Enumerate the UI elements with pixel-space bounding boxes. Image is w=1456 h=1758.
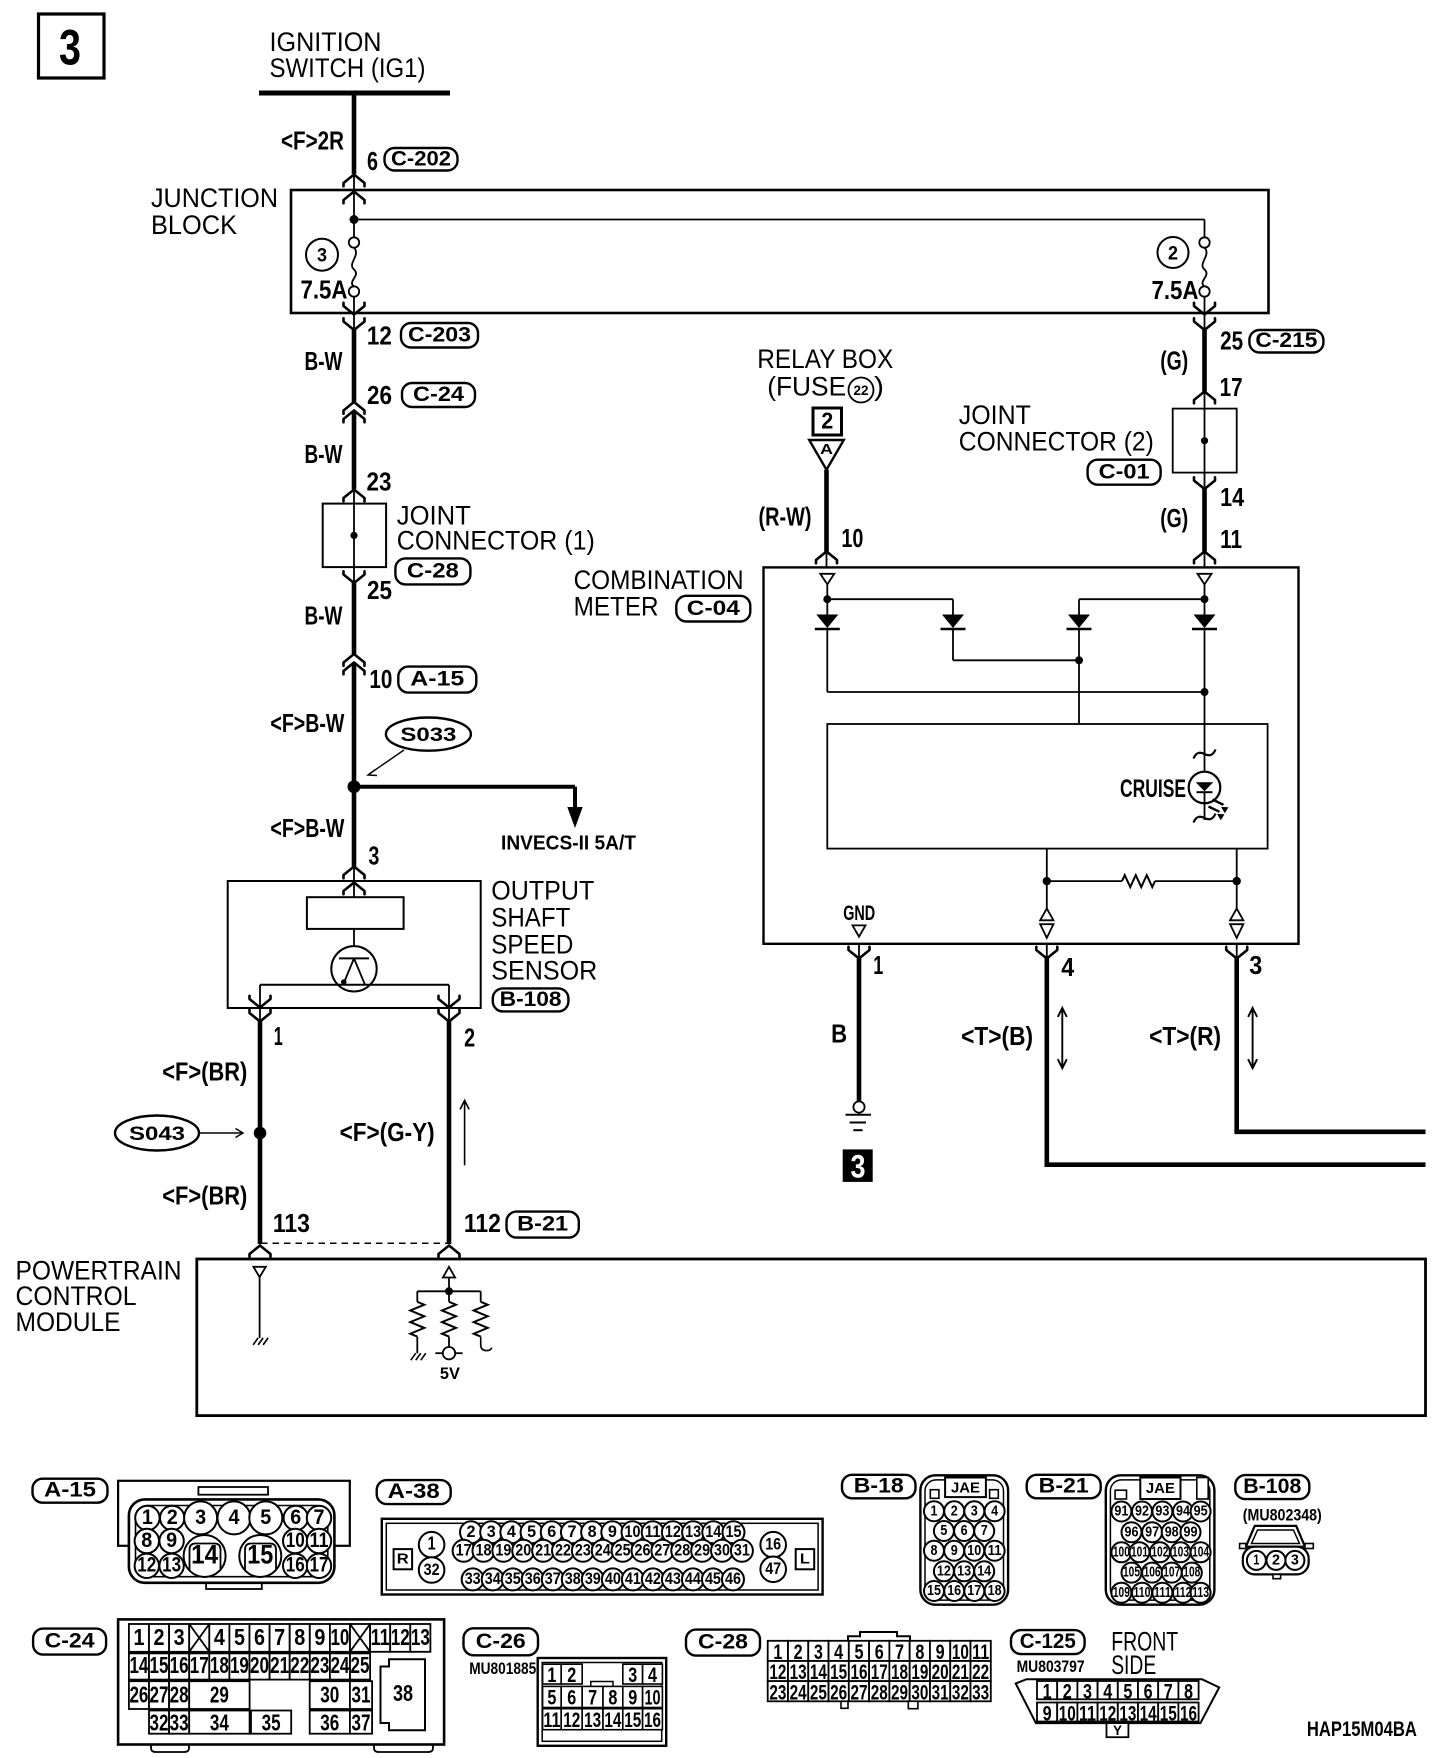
- connector A-38 pin 16: [760, 1532, 786, 1558]
- connector B-108 pins: [1247, 1551, 1266, 1570]
- PCM pullup node: [445, 1287, 453, 1295]
- svg-text:19: 19: [495, 1541, 511, 1560]
- svg-text:MODULE: MODULE: [16, 1307, 121, 1337]
- connector A-38 pins row 3: [462, 1568, 484, 1590]
- connector B-108 housing: [1246, 1526, 1305, 1547]
- connector A-38 pins row 2: [453, 1540, 475, 1562]
- svg-text:A-15: A-15: [44, 1479, 96, 1502]
- svg-text:13: 13: [957, 1563, 971, 1579]
- svg-text:31: 31: [352, 1682, 371, 1708]
- node diode2-diode3 join: [1075, 656, 1083, 664]
- svg-text:3: 3: [487, 1522, 496, 1541]
- svg-text:R: R: [397, 1551, 409, 1568]
- svg-text:38: 38: [565, 1569, 581, 1588]
- connector A-38 housing: [382, 1519, 823, 1595]
- svg-text:4: 4: [1103, 1680, 1112, 1703]
- svg-text:<F>(G-Y): <F>(G-Y): [340, 1119, 435, 1147]
- svg-text:12: 12: [563, 1709, 580, 1732]
- svg-text:28: 28: [871, 1681, 888, 1704]
- svg-text:37: 37: [352, 1709, 371, 1735]
- meter output pin 3 triangles: [1236, 881, 1238, 908]
- svg-text:4: 4: [648, 1664, 657, 1687]
- svg-text:23: 23: [769, 1681, 786, 1704]
- svg-text:7.5A: 7.5A: [1152, 277, 1199, 305]
- svg-text:12: 12: [391, 1624, 410, 1650]
- svg-text:OUTPUT: OUTPUT: [491, 876, 594, 906]
- node right feed: [1201, 595, 1209, 603]
- svg-text:JUNCTION: JUNCTION: [151, 183, 278, 213]
- svg-text:19: 19: [230, 1652, 249, 1678]
- ground connection circle: [853, 1101, 864, 1112]
- svg-text:CONNECTOR (1): CONNECTOR (1): [397, 525, 595, 555]
- svg-text:4: 4: [229, 1506, 240, 1529]
- connector C-28 label: [686, 1630, 760, 1656]
- svg-text:95: 95: [1194, 1504, 1208, 1520]
- svg-text:96: 96: [1125, 1524, 1139, 1540]
- svg-text:4: 4: [991, 1503, 998, 1519]
- connector B-21 JAE box: [1140, 1478, 1180, 1500]
- wire diode 3 output: [1078, 630, 1080, 724]
- svg-text:6: 6: [961, 1523, 968, 1539]
- junction node to fuses: [350, 215, 359, 224]
- svg-text:8: 8: [141, 1529, 152, 1552]
- connector C-26 label: [464, 1628, 539, 1655]
- svg-text:1: 1: [1253, 1553, 1259, 1569]
- connector A-38 R keying box: [394, 1549, 413, 1569]
- svg-text:SWITCH (IG1): SWITCH (IG1): [270, 53, 426, 83]
- PCM 5V supply symbol: [443, 1347, 455, 1359]
- magnetic pickup symbol: [331, 946, 376, 991]
- svg-text:CRUISE: CRUISE: [1120, 775, 1186, 803]
- svg-text:3: 3: [195, 1506, 206, 1529]
- svg-text:46: 46: [725, 1569, 741, 1588]
- svg-text:25: 25: [810, 1681, 827, 1704]
- connector C-28 keying tab top: [848, 1632, 910, 1641]
- cruise indicator lamp wire upper: [1204, 724, 1206, 772]
- svg-text:S033: S033: [400, 724, 456, 746]
- svg-text:<T>(R): <T>(R): [1149, 1023, 1221, 1051]
- svg-text:30: 30: [320, 1682, 339, 1708]
- connector C-125 pins row 1: [1037, 1681, 1057, 1699]
- svg-text:16: 16: [1180, 1702, 1197, 1725]
- svg-text:1: 1: [931, 1503, 938, 1519]
- svg-text:C-125: C-125: [1020, 1630, 1076, 1653]
- connector B-18 pins: [924, 1501, 944, 1521]
- svg-text:7: 7: [1164, 1680, 1173, 1703]
- sensor pin 2 exit chevrons: [448, 985, 450, 1022]
- connector B-108 label: [493, 988, 569, 1011]
- svg-text:25: 25: [367, 577, 392, 605]
- meter entry chevron pin 10: [816, 552, 837, 564]
- svg-text:108: 108: [1183, 1565, 1200, 1581]
- wire <F>2R ignition switch to junction block: [352, 93, 357, 174]
- svg-text:27: 27: [850, 1681, 867, 1704]
- speed sensor entry chevrons: [344, 867, 365, 879]
- svg-text:3: 3: [368, 843, 379, 871]
- joint connector 1 exit chevron: [353, 567, 355, 583]
- connector C-26 row 1 cells: [543, 1664, 562, 1684]
- svg-text:33: 33: [170, 1709, 189, 1735]
- wire internal box to resistor node right: [1236, 849, 1238, 882]
- svg-text:GND: GND: [843, 902, 875, 925]
- svg-text:3: 3: [851, 1148, 866, 1184]
- wire B-W joint connector to A-15: [352, 582, 357, 654]
- arrow from S033 to splice: [369, 750, 405, 775]
- cruise indicator LED: [1189, 772, 1221, 804]
- internal feed wire to fuse 2: [354, 219, 1205, 221]
- svg-text:<F>B-W: <F>B-W: [270, 710, 345, 738]
- junction block exit chevron right: [1204, 313, 1206, 330]
- connector A-15 label: [33, 1479, 108, 1503]
- svg-text:11: 11: [543, 1709, 560, 1732]
- svg-text:11: 11: [310, 1529, 329, 1552]
- fuse 2 number circle: [1158, 237, 1189, 268]
- svg-text:15: 15: [150, 1652, 169, 1678]
- connector C-26 row 3 cells: [543, 1709, 562, 1730]
- cruise indicator lamp break upper: [1194, 750, 1216, 759]
- svg-text:36: 36: [320, 1709, 339, 1735]
- svg-text:2: 2: [951, 1503, 958, 1519]
- signal direction double arrow right: [1252, 1010, 1254, 1066]
- svg-text:B-W: B-W: [305, 348, 344, 376]
- svg-text:7: 7: [274, 1624, 285, 1650]
- svg-text:14: 14: [705, 1522, 721, 1541]
- svg-text:B-W: B-W: [305, 441, 344, 469]
- connector A-15 bottom tab: [206, 1583, 262, 1589]
- svg-text:10: 10: [625, 1522, 641, 1541]
- svg-text:(G): (G): [1160, 505, 1188, 533]
- PCM pin 113 internal triangle: [253, 1267, 265, 1277]
- svg-text:16: 16: [170, 1652, 189, 1678]
- svg-text:8: 8: [588, 1522, 597, 1541]
- svg-text:5V: 5V: [440, 1364, 461, 1383]
- svg-text:3: 3: [174, 1624, 185, 1650]
- svg-text:<F>B-W: <F>B-W: [270, 815, 345, 843]
- svg-text:2: 2: [1168, 243, 1178, 264]
- svg-text:2: 2: [821, 407, 833, 433]
- junction block exit chevron left: [353, 313, 355, 330]
- wire block to pickup: [353, 929, 355, 946]
- svg-text:99: 99: [1184, 1524, 1198, 1540]
- svg-text:8: 8: [294, 1624, 305, 1650]
- meter output pin 4 triangles: [1046, 881, 1048, 908]
- connector B-108 label: [1235, 1475, 1309, 1499]
- combination meter box: [764, 567, 1299, 943]
- wire fuse 3 to junction block bottom: [353, 297, 355, 313]
- connector A-15 pin 14 cavity outline: [190, 1544, 221, 1571]
- svg-text:101: 101: [1131, 1544, 1148, 1560]
- svg-text:24: 24: [790, 1681, 807, 1704]
- svg-text:45: 45: [705, 1569, 721, 1588]
- svg-text:6: 6: [567, 1686, 576, 1709]
- svg-text:2: 2: [467, 1522, 476, 1541]
- svg-text:16: 16: [947, 1583, 961, 1599]
- sensor pin 1 exit chevrons: [259, 985, 261, 1022]
- arrowhead to INVECS-II: [567, 807, 582, 828]
- node diode1-diode4 join: [1201, 688, 1209, 696]
- connector B-18 JAE box: [945, 1478, 986, 1498]
- wire fuse 2 to junction block bottom: [1204, 297, 1206, 313]
- connector B-21 body: [1106, 1475, 1215, 1604]
- connector C-24 row 1 cells: [129, 1624, 149, 1652]
- svg-text:1: 1: [1043, 1680, 1052, 1703]
- svg-text:102: 102: [1151, 1544, 1168, 1560]
- svg-text:107: 107: [1163, 1565, 1180, 1581]
- svg-text:113: 113: [273, 1210, 310, 1238]
- svg-text:1: 1: [873, 952, 883, 980]
- svg-text:1: 1: [133, 1624, 144, 1650]
- meter pin 1 exit chevron: [858, 944, 860, 959]
- svg-text:JOINT: JOINT: [959, 400, 1031, 430]
- svg-text:INVECS-II 5A/T: INVECS-II 5A/T: [501, 833, 636, 855]
- svg-text:22: 22: [290, 1652, 309, 1678]
- PCM internal ground wire: [259, 1277, 261, 1338]
- svg-text:<T>(B): <T>(B): [961, 1023, 1033, 1051]
- svg-text:22: 22: [854, 383, 869, 398]
- svg-text:B-21: B-21: [517, 1212, 568, 1236]
- svg-text:4: 4: [507, 1522, 517, 1541]
- svg-text:39: 39: [585, 1569, 601, 1588]
- svg-text:9: 9: [608, 1522, 617, 1541]
- svg-text:C-215: C-215: [1255, 329, 1317, 352]
- wire diode 2 output: [952, 630, 954, 660]
- wire internal box to resistor node left: [1046, 849, 1048, 882]
- svg-text:2: 2: [464, 1024, 475, 1052]
- wire to diode 3: [1079, 598, 1205, 600]
- svg-text:17: 17: [1220, 374, 1243, 402]
- svg-text:11: 11: [988, 1543, 1002, 1559]
- svg-text:23: 23: [367, 469, 392, 497]
- connector B-21 label: [1027, 1475, 1101, 1499]
- ground symbol: [858, 1113, 860, 1115]
- svg-text:24: 24: [595, 1541, 611, 1560]
- svg-text:6: 6: [1144, 1680, 1153, 1703]
- svg-text:40: 40: [605, 1569, 621, 1588]
- svg-text:41: 41: [625, 1569, 641, 1588]
- meter pin 10 internal triangle: [820, 574, 834, 585]
- joint connector 2 entry chevron: [1194, 392, 1215, 404]
- svg-text:6: 6: [290, 1506, 301, 1529]
- svg-text:15: 15: [624, 1709, 641, 1732]
- wire B meter ground: [857, 958, 862, 1102]
- page number box 3: [39, 14, 105, 78]
- svg-text:10: 10: [369, 666, 392, 694]
- connector A-15 pins: [135, 1506, 159, 1530]
- svg-text:44: 44: [685, 1569, 701, 1588]
- svg-text:9: 9: [951, 1543, 958, 1559]
- svg-text:8: 8: [608, 1686, 617, 1709]
- svg-text:14: 14: [129, 1652, 148, 1678]
- svg-text:2: 2: [167, 1506, 178, 1529]
- svg-text:10: 10: [330, 1624, 349, 1650]
- splice node S033: [348, 780, 361, 793]
- svg-text:18: 18: [988, 1583, 1002, 1599]
- svg-text:18: 18: [475, 1541, 491, 1560]
- svg-text:13: 13: [411, 1624, 430, 1650]
- connector B-18 label: [842, 1475, 916, 1499]
- wire (G) junction block to joint connector 2: [1202, 329, 1207, 392]
- connector C-125 Y tab: [1107, 1723, 1129, 1737]
- svg-text:33: 33: [972, 1681, 989, 1704]
- svg-text:29: 29: [891, 1681, 908, 1704]
- svg-text:25: 25: [615, 1541, 631, 1560]
- connector A-15 pin 15 cavity outline: [245, 1544, 276, 1571]
- connector B-18 body: [920, 1475, 1008, 1604]
- wire <F>(BR) sensor pin 1 to PCM pin 113: [258, 1021, 263, 1245]
- svg-text:3: 3: [628, 1664, 637, 1687]
- joint connector (1) box: [323, 504, 386, 567]
- connector C-24 row 4 cells: [149, 1711, 169, 1734]
- svg-text:9: 9: [314, 1624, 325, 1650]
- svg-text:31: 31: [932, 1681, 949, 1704]
- joint connector 2 exit chevron: [1204, 473, 1206, 489]
- svg-text:11: 11: [645, 1522, 661, 1541]
- svg-text:35: 35: [262, 1709, 281, 1735]
- svg-text:7: 7: [314, 1506, 325, 1529]
- svg-text:29: 29: [210, 1682, 229, 1708]
- svg-text:12: 12: [367, 323, 392, 351]
- svg-text:C-202: C-202: [391, 146, 451, 170]
- PCM entry chevron pin 112: [439, 1246, 460, 1258]
- connector C-125 pins row 2: [1037, 1703, 1057, 1722]
- connector C-24 housing: [118, 1619, 444, 1744]
- fuse 3 number circle: [306, 239, 338, 271]
- svg-text:112: 112: [464, 1210, 501, 1238]
- svg-text:JAE: JAE: [1146, 1480, 1175, 1497]
- svg-text:13: 13: [685, 1522, 701, 1541]
- svg-text:28: 28: [170, 1682, 189, 1708]
- connector C-202 label: [385, 148, 458, 171]
- svg-text:Y: Y: [1113, 1722, 1123, 1738]
- svg-text:34: 34: [210, 1709, 229, 1735]
- svg-text:A-15: A-15: [410, 667, 464, 691]
- ground reference black box 3: [843, 1149, 873, 1182]
- svg-text:5: 5: [234, 1624, 245, 1650]
- connector A-38 pin 32: [419, 1557, 445, 1583]
- svg-text:9: 9: [1043, 1702, 1052, 1725]
- connector A-38 pin 1: [419, 1532, 445, 1558]
- wire <F>B-W splice to output shaft speed sensor: [352, 787, 357, 867]
- svg-text:RELAY BOX: RELAY BOX: [757, 344, 893, 374]
- svg-text:17: 17: [310, 1554, 329, 1577]
- svg-text:16: 16: [765, 1535, 781, 1554]
- svg-text:2: 2: [1063, 1680, 1072, 1703]
- svg-text:25: 25: [1220, 328, 1243, 356]
- meter pin 3 exit chevron: [1236, 944, 1238, 959]
- connector C-24 cavity 38: [381, 1659, 426, 1730]
- svg-text:26: 26: [129, 1682, 148, 1708]
- svg-text:111: 111: [1154, 1585, 1171, 1601]
- svg-text:4: 4: [214, 1624, 225, 1650]
- splice S033 callout: [386, 718, 471, 751]
- connector boundary dashed line: [261, 1242, 449, 1244]
- svg-text:1: 1: [547, 1664, 556, 1687]
- svg-text:17: 17: [967, 1583, 981, 1599]
- svg-text:109: 109: [1113, 1585, 1130, 1601]
- intermediate connector chevrons at A-15: [344, 654, 365, 666]
- connector C-28 grid: [768, 1641, 788, 1661]
- svg-text:97: 97: [1145, 1524, 1159, 1540]
- svg-text:B-21: B-21: [1039, 1475, 1089, 1498]
- meter internal circuit box: [827, 724, 1267, 849]
- svg-text:31: 31: [734, 1541, 750, 1560]
- svg-text:42: 42: [645, 1569, 661, 1588]
- diode 1: [816, 615, 838, 629]
- svg-text:112: 112: [1175, 1585, 1192, 1601]
- diode 2: [942, 615, 964, 629]
- svg-text:SHAFT: SHAFT: [491, 903, 570, 933]
- splice node S043: [254, 1127, 267, 1140]
- connector C-01 label: [1088, 460, 1161, 485]
- svg-text:110: 110: [1134, 1585, 1151, 1601]
- svg-text:9: 9: [166, 1529, 177, 1552]
- PCM resistor middle: [448, 1291, 450, 1302]
- wire diode 1 output: [826, 630, 828, 692]
- svg-text:14: 14: [604, 1709, 621, 1732]
- powertrain control module box: [197, 1259, 1426, 1416]
- svg-text:A-38: A-38: [388, 1480, 440, 1503]
- svg-text:6: 6: [367, 148, 378, 176]
- svg-text:B-W: B-W: [305, 603, 344, 631]
- svg-text:5: 5: [527, 1522, 536, 1541]
- svg-text:32: 32: [150, 1709, 169, 1735]
- svg-text:38: 38: [393, 1680, 413, 1706]
- svg-text:12: 12: [665, 1522, 681, 1541]
- svg-text:13: 13: [162, 1554, 181, 1577]
- svg-text:17: 17: [190, 1652, 209, 1678]
- svg-text:27: 27: [654, 1541, 670, 1560]
- svg-text:16: 16: [286, 1554, 305, 1577]
- wire <F>B-W A-15 to splice S033: [352, 663, 357, 787]
- svg-text:3: 3: [59, 19, 81, 75]
- connector B-21 pins: [1111, 1502, 1131, 1522]
- svg-text:1: 1: [274, 1023, 283, 1051]
- wire junction node down to fuse 3: [353, 220, 355, 238]
- svg-text:C-24: C-24: [413, 382, 464, 406]
- sensor internal block: [307, 897, 404, 929]
- svg-text:C-01: C-01: [1099, 459, 1150, 483]
- splice S043 callout: [115, 1116, 199, 1151]
- svg-text:B-18: B-18: [854, 1475, 904, 1498]
- svg-text:(G): (G): [1160, 348, 1188, 376]
- svg-text:9: 9: [628, 1686, 637, 1709]
- svg-text:16: 16: [644, 1709, 661, 1732]
- svg-text:): ): [874, 371, 884, 401]
- connector C-26 row 2 cells: [543, 1686, 562, 1707]
- svg-text:32: 32: [424, 1560, 440, 1579]
- svg-text:34: 34: [485, 1569, 501, 1588]
- connector C-24 row 2 cells: [129, 1653, 149, 1679]
- svg-text:3: 3: [1291, 1553, 1299, 1569]
- svg-text:8: 8: [931, 1543, 938, 1559]
- wire <T>(R) meter pin 3 to right edge: [1234, 958, 1239, 1132]
- page reference triangle A: [809, 440, 844, 470]
- connector C-28 label: [395, 558, 470, 584]
- svg-text:HAP15M04BA: HAP15M04BA: [1307, 1718, 1417, 1741]
- svg-text:36: 36: [525, 1569, 541, 1588]
- svg-text:15: 15: [725, 1522, 741, 1541]
- svg-text:47: 47: [765, 1559, 781, 1578]
- svg-text:105: 105: [1123, 1565, 1140, 1581]
- svg-text:20: 20: [250, 1652, 269, 1678]
- wire to diode 2: [827, 598, 953, 600]
- PCM entry chevron pin 113: [250, 1246, 271, 1258]
- svg-text:103: 103: [1172, 1544, 1189, 1560]
- node left feed: [823, 595, 831, 603]
- meter entry chevron pin 11: [1194, 552, 1215, 564]
- diode 4: [1194, 615, 1216, 629]
- svg-text:JAE: JAE: [951, 1480, 980, 1497]
